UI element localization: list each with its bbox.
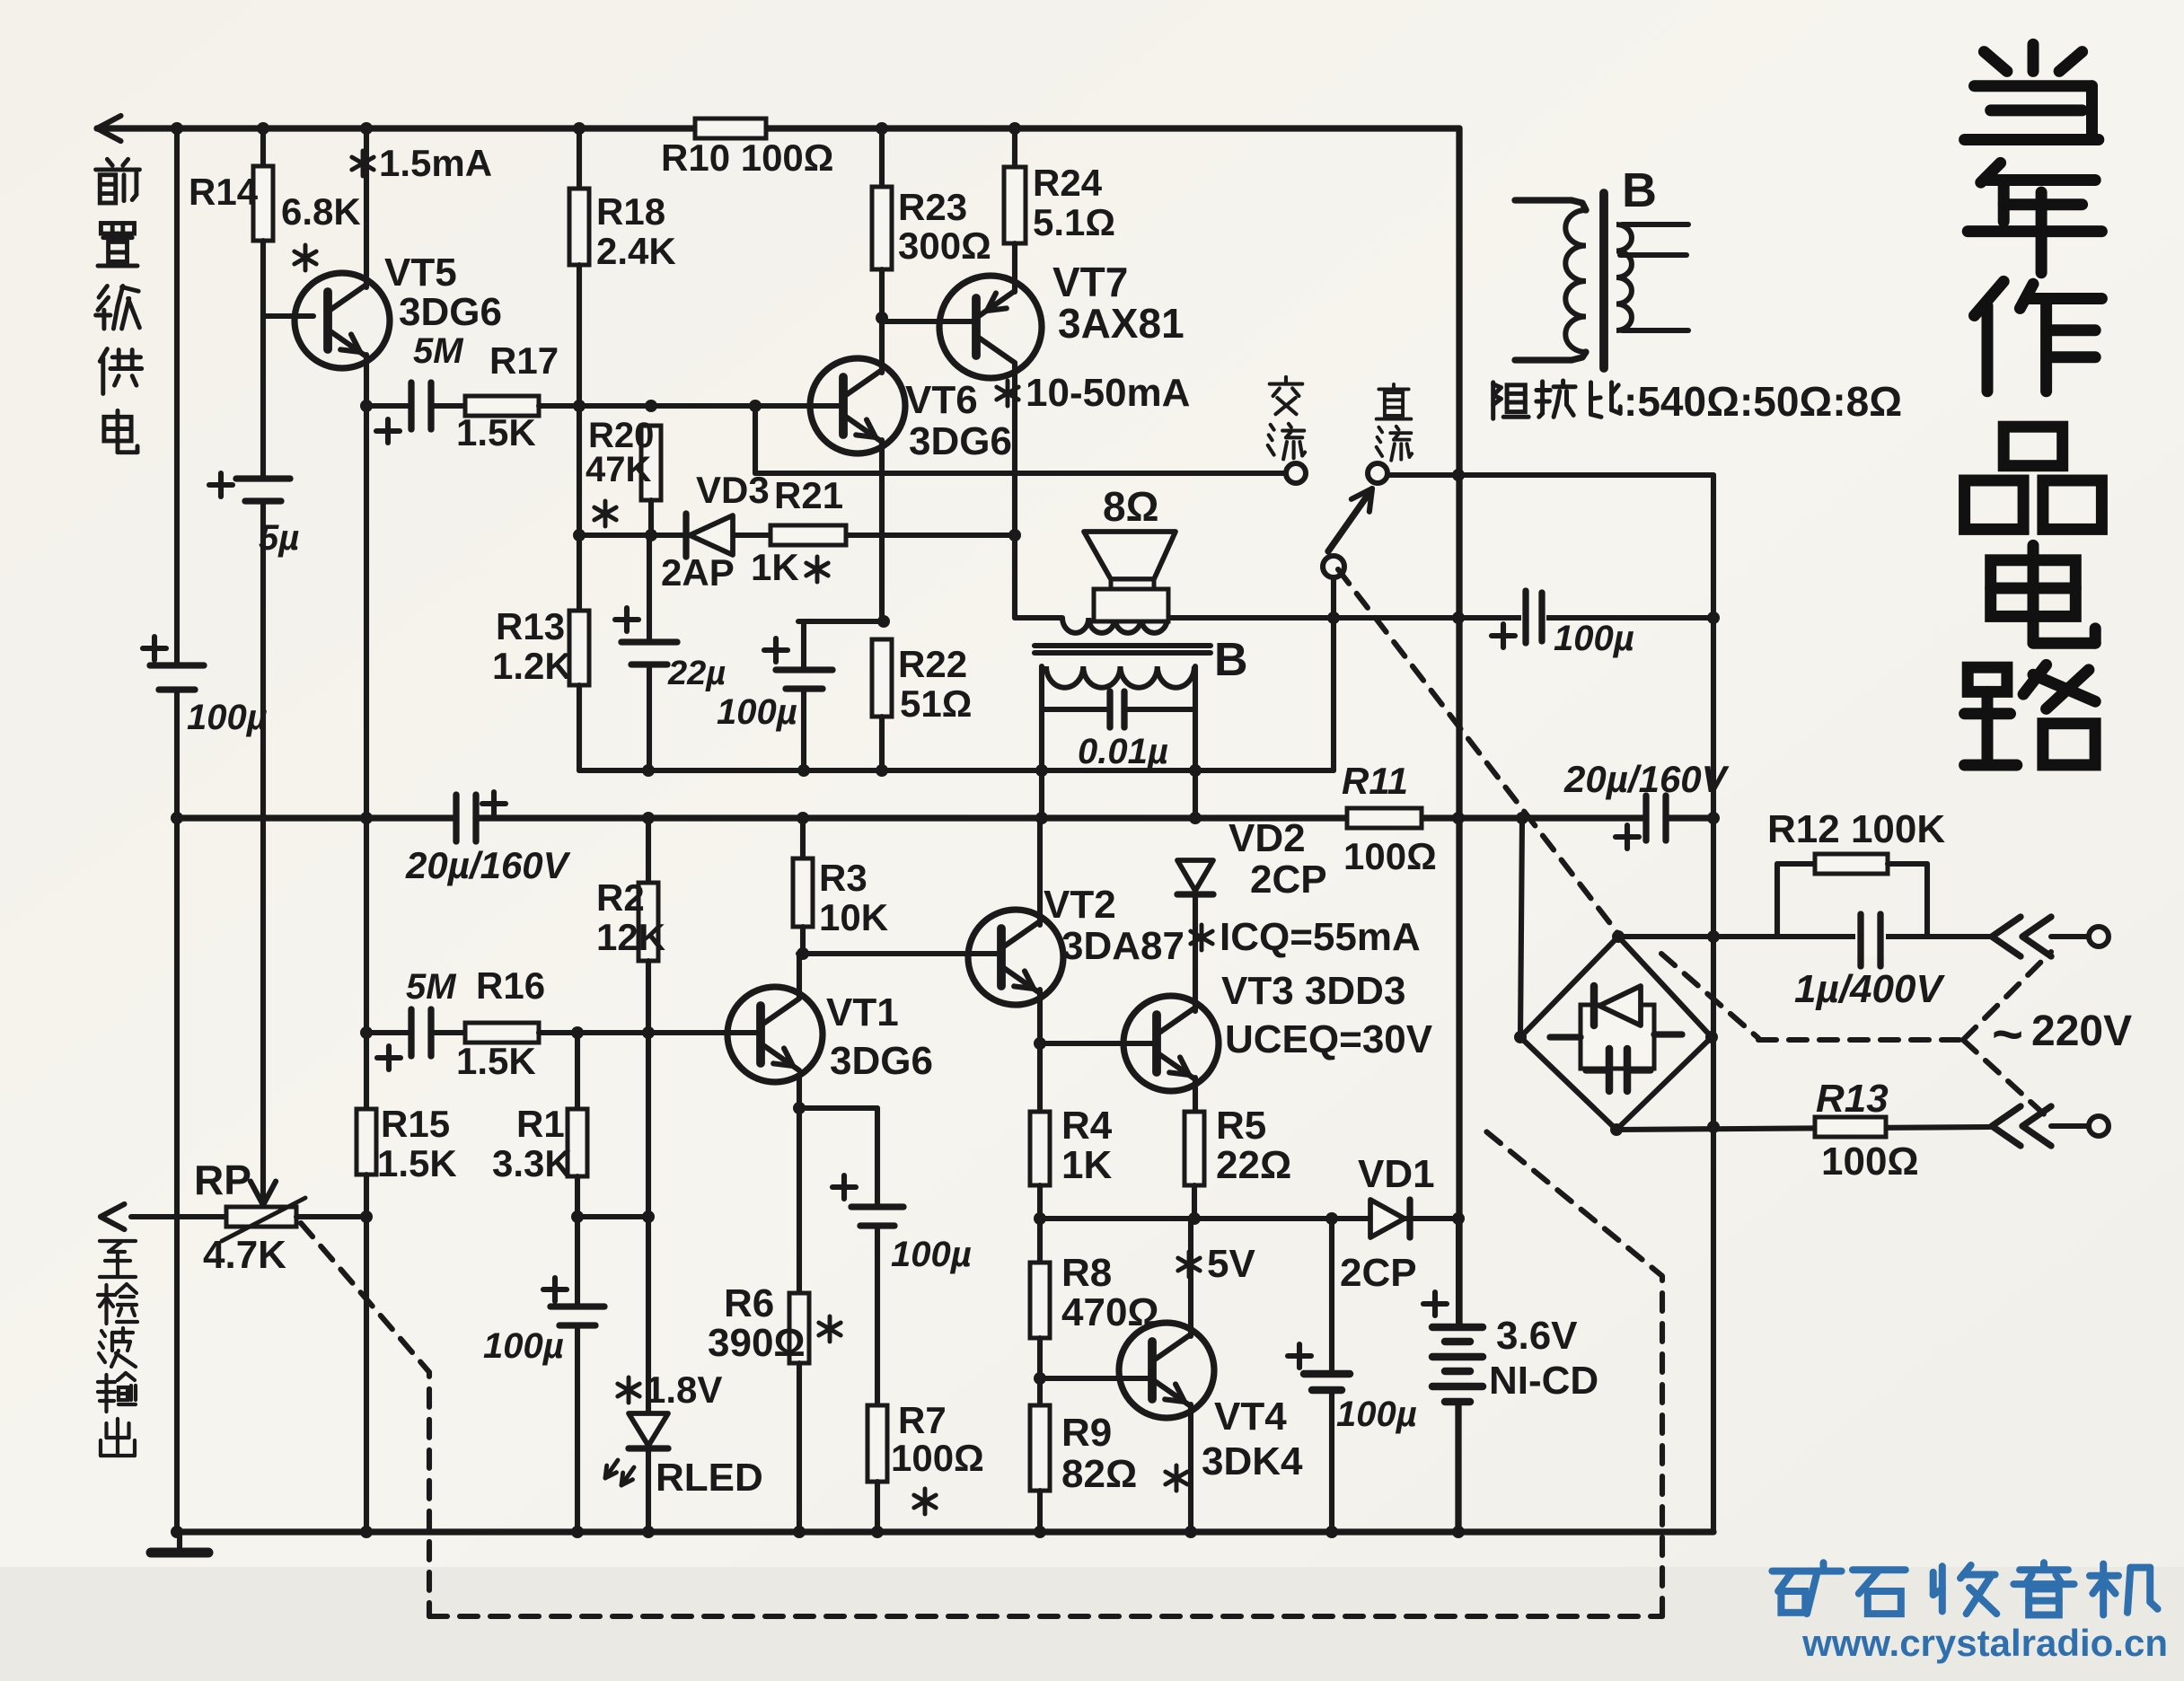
svg-text:R2: R2: [596, 876, 645, 919]
svg-text:www.crystalradio.cn: www.crystalradio.cn: [1801, 1622, 2168, 1664]
svg-text:UCEQ=30V: UCEQ=30V: [1225, 1017, 1433, 1061]
svg-text:2.4K: 2.4K: [596, 230, 676, 272]
svg-text:R14: R14: [189, 171, 259, 213]
svg-text:VT5: VT5: [384, 251, 457, 295]
svg-text:300Ω: 300Ω: [898, 224, 991, 267]
svg-text:2CP: 2CP: [1340, 1251, 1417, 1295]
svg-text:R11: R11: [1342, 760, 1408, 802]
svg-text:R9: R9: [1061, 1411, 1112, 1455]
svg-text:R6: R6: [724, 1281, 774, 1325]
svg-text:VT2: VT2: [1044, 883, 1116, 927]
svg-text:5µ: 5µ: [259, 518, 299, 558]
svg-text:2AP: 2AP: [661, 551, 735, 594]
svg-text:51Ω: 51Ω: [900, 682, 972, 725]
svg-text:100µ: 100µ: [1554, 619, 1634, 658]
svg-text:1K: 1K: [1061, 1143, 1112, 1187]
svg-text:R5: R5: [1216, 1104, 1266, 1148]
svg-text:RP: RP: [194, 1157, 251, 1203]
svg-text:R13: R13: [1816, 1077, 1889, 1121]
svg-text:1.5mA: 1.5mA: [379, 142, 492, 184]
svg-text:1K: 1K: [751, 546, 799, 588]
svg-text:R12 100K: R12 100K: [1767, 807, 1945, 851]
svg-text:1.5K: 1.5K: [456, 1040, 536, 1082]
svg-text:R24: R24: [1033, 162, 1103, 204]
svg-text:100µ: 100µ: [187, 698, 268, 737]
svg-text:3.6V: 3.6V: [1496, 1314, 1578, 1358]
svg-text:1.2K: 1.2K: [492, 645, 572, 687]
svg-text:B: B: [1622, 163, 1657, 217]
svg-text:VT7: VT7: [1052, 259, 1128, 305]
svg-text:390Ω: 390Ω: [708, 1321, 806, 1365]
svg-text:5M: 5M: [413, 331, 464, 371]
svg-text:3DG6: 3DG6: [830, 1039, 933, 1083]
svg-text:3DG6: 3DG6: [909, 419, 1012, 463]
svg-text:R4: R4: [1061, 1104, 1113, 1148]
svg-text:R16: R16: [476, 964, 545, 1007]
svg-text:2CP: 2CP: [1250, 858, 1327, 902]
svg-text:6.8K: 6.8K: [281, 190, 361, 233]
svg-text:100µ: 100µ: [1336, 1395, 1417, 1434]
svg-text:22Ω: 22Ω: [1216, 1143, 1291, 1187]
svg-text:1.5K: 1.5K: [456, 411, 536, 453]
svg-text:12K: 12K: [596, 916, 665, 958]
svg-text:3DK4: 3DK4: [1202, 1439, 1303, 1483]
svg-text:47K: 47K: [586, 450, 651, 489]
svg-text:R3: R3: [819, 857, 867, 899]
svg-text:20µ/160V: 20µ/160V: [1563, 758, 1730, 800]
svg-text:R1: R1: [516, 1103, 565, 1145]
svg-text:10K: 10K: [819, 896, 888, 938]
svg-text:R15: R15: [381, 1103, 450, 1145]
svg-text:RLED: RLED: [656, 1456, 763, 1500]
svg-text:VT4: VT4: [1214, 1395, 1287, 1439]
svg-text:VT1: VT1: [826, 990, 899, 1034]
svg-text:5V: 5V: [1207, 1242, 1255, 1286]
svg-text:R22: R22: [898, 643, 967, 685]
svg-text:5M: 5M: [406, 967, 457, 1007]
svg-text:100Ω: 100Ω: [1821, 1140, 1919, 1184]
svg-text:8Ω: 8Ω: [1103, 483, 1158, 530]
svg-text:20µ/160V: 20µ/160V: [405, 844, 571, 886]
svg-text::540Ω:50Ω:8Ω: :540Ω:50Ω:8Ω: [1624, 378, 1902, 425]
svg-text:100Ω: 100Ω: [1343, 835, 1437, 877]
svg-text:R21: R21: [774, 474, 843, 516]
svg-text:3DA87: 3DA87: [1061, 924, 1184, 968]
svg-text:R10 100Ω: R10 100Ω: [661, 136, 833, 179]
svg-text:10-50mA: 10-50mA: [1026, 371, 1190, 415]
svg-text:R8: R8: [1061, 1251, 1112, 1295]
svg-text:5.1Ω: 5.1Ω: [1033, 201, 1115, 243]
svg-text:NI-CD: NI-CD: [1489, 1359, 1598, 1403]
svg-text:3.3K: 3.3K: [492, 1142, 572, 1184]
svg-text:R17: R17: [489, 339, 559, 382]
svg-text:1.8V: 1.8V: [645, 1369, 722, 1411]
svg-text:R18: R18: [596, 190, 665, 233]
svg-text:1.5K: 1.5K: [377, 1142, 457, 1184]
svg-text:3DG6: 3DG6: [399, 290, 502, 334]
svg-text:3AX81: 3AX81: [1058, 300, 1184, 347]
svg-text:22µ: 22µ: [667, 655, 726, 692]
svg-text:VD1: VD1: [1358, 1152, 1435, 1196]
svg-text:R13: R13: [496, 605, 565, 647]
svg-text:VT3 3DD3: VT3 3DD3: [1221, 969, 1405, 1013]
svg-text:100µ: 100µ: [483, 1326, 564, 1366]
svg-text:B: B: [1214, 634, 1248, 686]
svg-text:4.7K: 4.7K: [203, 1233, 286, 1277]
svg-text:ICQ=55mA: ICQ=55mA: [1220, 915, 1421, 959]
svg-text:82Ω: 82Ω: [1061, 1452, 1137, 1496]
svg-text:R7: R7: [898, 1399, 947, 1441]
svg-text:VT6: VT6: [905, 378, 978, 422]
svg-text:100µ: 100µ: [717, 692, 797, 732]
svg-text:R23: R23: [898, 186, 967, 228]
svg-text:0.01µ: 0.01µ: [1078, 732, 1168, 771]
svg-text:100µ: 100µ: [891, 1235, 972, 1274]
svg-text:~: ~: [1992, 1004, 2023, 1064]
svg-text:1µ/400V: 1µ/400V: [1794, 967, 1945, 1011]
svg-text:220V: 220V: [2031, 1008, 2132, 1055]
svg-text:VD2: VD2: [1228, 816, 1306, 860]
svg-text:100Ω: 100Ω: [891, 1437, 984, 1479]
